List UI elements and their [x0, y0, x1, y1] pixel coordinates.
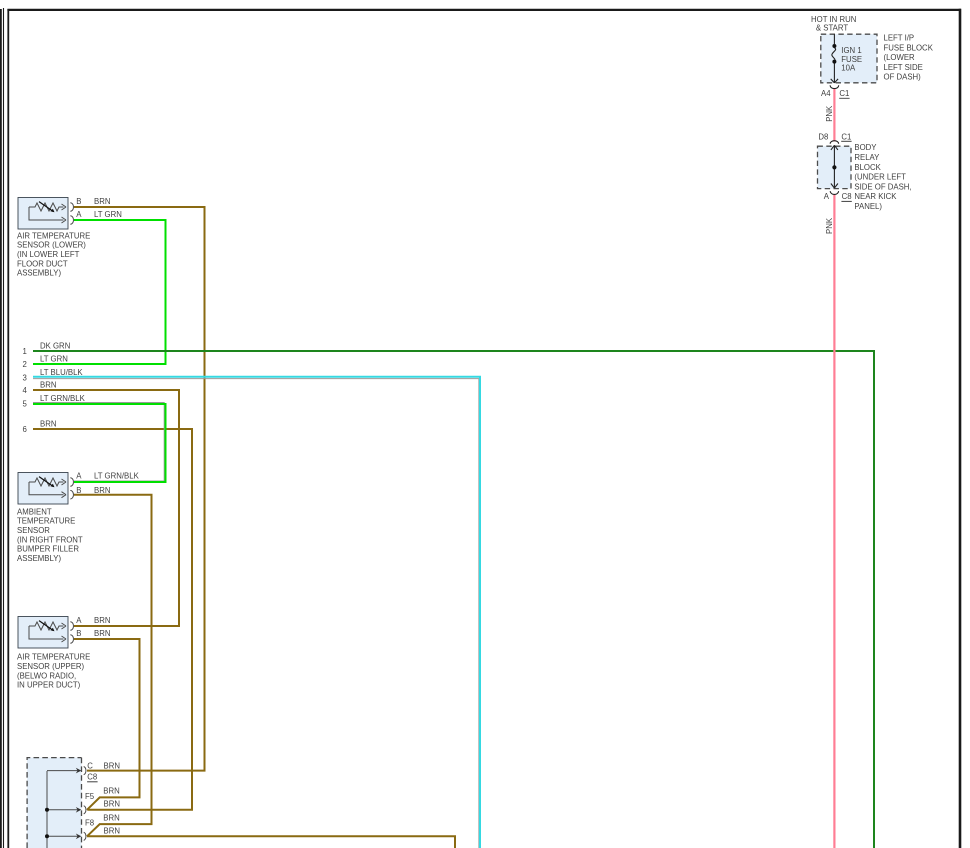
svg-text:LT BLU/BLK: LT BLU/BLK	[40, 368, 83, 377]
svg-text:BRN: BRN	[94, 197, 110, 206]
svg-text:A: A	[824, 192, 830, 201]
svg-text:BRN: BRN	[40, 380, 56, 389]
svg-text:PNK: PNK	[825, 105, 834, 122]
svg-text:BRN: BRN	[94, 629, 110, 638]
svg-text:LT GRN: LT GRN	[94, 210, 122, 219]
svg-text:BRN: BRN	[94, 486, 110, 495]
svg-text:A: A	[76, 616, 82, 625]
svg-text:B: B	[76, 197, 81, 206]
svg-text:(IN LOWER LEFT: (IN LOWER LEFT	[17, 250, 80, 259]
svg-text:3: 3	[23, 373, 27, 382]
svg-text:BRN: BRN	[40, 419, 56, 428]
svg-text:D8: D8	[818, 132, 828, 141]
svg-text:B: B	[76, 629, 81, 638]
svg-text:PNK: PNK	[825, 217, 834, 234]
svg-text:BUMPER FILLER: BUMPER FILLER	[17, 545, 79, 554]
svg-text:FLOOR DUCT: FLOOR DUCT	[17, 259, 68, 268]
svg-text:6: 6	[23, 425, 27, 434]
svg-text:LT GRN/BLK: LT GRN/BLK	[40, 394, 86, 403]
svg-text:B: B	[76, 486, 81, 495]
svg-text:AIR TEMPERATURE: AIR TEMPERATURE	[17, 653, 90, 662]
svg-text:ASSEMBLY): ASSEMBLY)	[17, 554, 61, 563]
svg-text:(LOWER: (LOWER	[884, 53, 916, 62]
svg-text:NEAR KICK: NEAR KICK	[854, 192, 897, 201]
svg-text:10A: 10A	[841, 64, 856, 73]
svg-text:DK GRN: DK GRN	[40, 341, 70, 350]
svg-text:LT GRN/BLK: LT GRN/BLK	[94, 471, 140, 480]
svg-text:AMBIENT: AMBIENT	[17, 507, 52, 516]
svg-text:2: 2	[23, 360, 27, 369]
svg-text:BRN: BRN	[104, 826, 120, 835]
svg-text:C1: C1	[839, 89, 849, 98]
svg-text:F8: F8	[85, 819, 94, 828]
svg-text:PANEL): PANEL)	[854, 202, 882, 211]
svg-text:ASSEMBLY): ASSEMBLY)	[17, 269, 61, 278]
svg-text:A: A	[76, 210, 82, 219]
svg-text:BODY: BODY	[854, 143, 877, 152]
svg-text:BRN: BRN	[104, 799, 120, 808]
svg-text:C: C	[87, 761, 93, 770]
svg-text:(UNDER LEFT: (UNDER LEFT	[854, 173, 906, 182]
svg-text:(BELWO RADIO,: (BELWO RADIO,	[17, 671, 76, 680]
svg-text:BRN: BRN	[103, 813, 119, 822]
svg-text:C1: C1	[841, 132, 851, 141]
svg-text:IGN 1: IGN 1	[841, 46, 861, 55]
svg-text:F5: F5	[85, 792, 95, 801]
svg-text:LEFT I/P: LEFT I/P	[884, 34, 915, 43]
svg-text:SENSOR: SENSOR	[17, 526, 50, 535]
svg-text:BRN: BRN	[104, 761, 120, 770]
svg-text:BRN: BRN	[94, 616, 110, 625]
svg-text:& START: & START	[816, 23, 848, 32]
svg-text:RELAY: RELAY	[854, 153, 880, 162]
svg-text:OF DASH): OF DASH)	[884, 73, 922, 82]
svg-text:5: 5	[23, 399, 28, 408]
svg-text:C8: C8	[842, 192, 852, 201]
svg-text:AIR TEMPERATURE: AIR TEMPERATURE	[17, 231, 90, 240]
svg-text:FUSE: FUSE	[841, 55, 862, 64]
svg-text:SENSOR (UPPER): SENSOR (UPPER)	[17, 662, 85, 671]
svg-text:A: A	[76, 471, 82, 480]
svg-text:LEFT SIDE: LEFT SIDE	[884, 63, 923, 72]
svg-text:FUSE BLOCK: FUSE BLOCK	[884, 43, 934, 52]
svg-text:TEMPERATURE: TEMPERATURE	[17, 517, 75, 526]
svg-text:(IN RIGHT FRONT: (IN RIGHT FRONT	[17, 535, 83, 544]
svg-text:C8: C8	[87, 773, 97, 782]
svg-text:4: 4	[23, 386, 28, 395]
svg-text:BLOCK: BLOCK	[854, 163, 881, 172]
svg-text:A4: A4	[821, 89, 831, 98]
svg-text:SENSOR (LOWER): SENSOR (LOWER)	[17, 241, 86, 250]
svg-text:LT GRN: LT GRN	[40, 354, 68, 363]
svg-text:BRN: BRN	[103, 787, 119, 796]
svg-text:1: 1	[23, 347, 27, 356]
svg-text:IN UPPER DUCT): IN UPPER DUCT)	[17, 681, 81, 690]
svg-text:SIDE OF DASH,: SIDE OF DASH,	[854, 182, 911, 191]
